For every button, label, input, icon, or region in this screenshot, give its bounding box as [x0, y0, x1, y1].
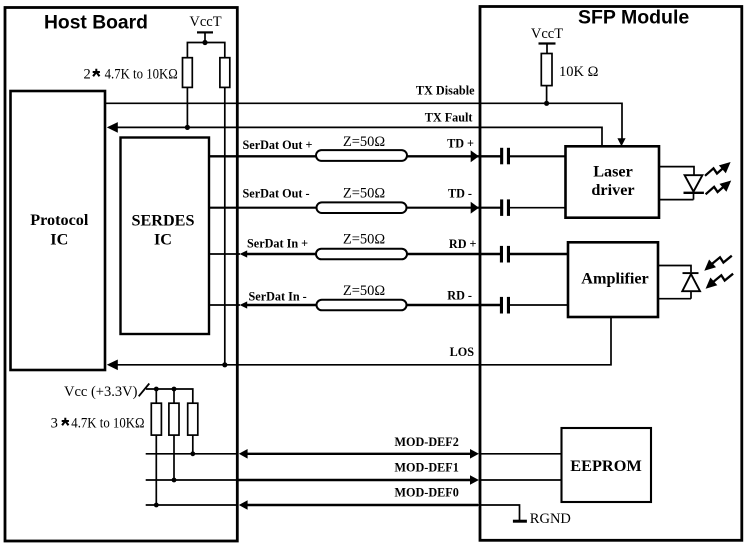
svg-text:Z=50Ω: Z=50Ω — [343, 185, 386, 201]
value label 2*4.7K to 10K — [84, 67, 178, 83]
svg-text:2: 2 — [84, 67, 91, 83]
wire RD- — [209, 289, 500, 309]
svg-text:TD -: TD - — [448, 187, 472, 201]
svg-text:EEPROM: EEPROM — [570, 456, 641, 475]
wire: R1 to TX Fault — [186, 87, 188, 127]
wire: R2 to LOS — [224, 87, 226, 364]
SERDES IC U2 — [121, 138, 210, 335]
svg-text:RD +: RD + — [449, 237, 477, 251]
resistor R4 — [151, 403, 161, 435]
photodiode D2 — [658, 266, 700, 299]
svg-text:3: 3 — [51, 416, 58, 432]
power VccT (SFP) — [531, 26, 563, 54]
wire TD- — [209, 186, 501, 213]
svg-text:SFP Module: SFP Module — [578, 7, 689, 29]
power Vcc 3.3V — [64, 384, 149, 401]
wire MOD-DEF1 — [146, 460, 562, 485]
transmission line Z=50 (RD-) — [317, 283, 407, 310]
svg-text:Host Board: Host Board — [44, 13, 148, 34]
svg-text:MOD-DEF1: MOD-DEF1 — [395, 460, 459, 474]
capacitor C4 (RD-) — [500, 297, 568, 314]
svg-text:SERDES: SERDES — [132, 212, 195, 230]
amplifier U4 — [568, 242, 658, 317]
svg-text:driver: driver — [591, 181, 634, 199]
svg-text:Z=50Ω: Z=50Ω — [343, 232, 386, 248]
wire: R4 to MOD-DEF0 — [155, 435, 157, 505]
laser driver U3 — [566, 146, 660, 217]
svg-text:LOS: LOS — [450, 345, 475, 359]
svg-text:TD +: TD + — [447, 137, 474, 151]
light input arrow 2 — [706, 274, 734, 289]
svg-text:4.7K to 10KΩ: 4.7K to 10KΩ — [105, 67, 178, 83]
svg-text:SerDat Out -: SerDat Out - — [243, 186, 310, 200]
node: R2-LOS junction — [222, 362, 227, 367]
svg-text:Laser: Laser — [593, 163, 633, 181]
ground RGND — [513, 511, 571, 527]
transmission line Z=50 (TD-) — [317, 185, 407, 213]
node: R5-MODDEF1 — [172, 478, 177, 483]
resistor R5 — [169, 403, 179, 435]
wire LOS — [107, 317, 611, 370]
svg-text:Amplifier: Amplifier — [581, 270, 648, 288]
svg-text:TX Fault: TX Fault — [425, 111, 473, 125]
light output arrow 1 — [705, 162, 731, 176]
value label 3*4.7K to 10K — [51, 416, 145, 432]
node: R4-MODDEF0 — [154, 503, 159, 508]
light output arrow 2 — [706, 181, 732, 195]
node: R1-TXFault junction — [185, 125, 190, 130]
node: VccT junction — [202, 40, 207, 45]
svg-text:MOD-DEF0: MOD-DEF0 — [395, 485, 459, 499]
node: rail-R5 — [172, 387, 177, 392]
wire TX Fault — [107, 111, 602, 147]
power VccT (host) — [189, 14, 221, 43]
node: 10K-TXDisable junction — [544, 101, 549, 106]
transmission line Z=50 (TD+) — [316, 134, 407, 161]
node: R6-MODDEF2 — [190, 451, 195, 456]
wire: R5 to MOD-DEF1 — [173, 435, 175, 480]
wire TD+ — [209, 137, 501, 163]
svg-text:SerDat In -: SerDat In - — [249, 289, 307, 303]
svg-text:VccT: VccT — [189, 14, 221, 30]
svg-text:Z=50Ω: Z=50Ω — [343, 134, 386, 150]
svg-text:RGND: RGND — [530, 511, 571, 527]
svg-text:SerDat Out +: SerDat Out + — [243, 138, 313, 152]
resistor R3 (10K SFP) — [541, 54, 598, 86]
wire: Vcc rail — [146, 389, 193, 403]
svg-text:Z=50Ω: Z=50Ω — [343, 283, 386, 299]
node: rail-R4 — [154, 387, 159, 392]
svg-text:RD -: RD - — [447, 289, 472, 303]
wire: 10K to TX Disable — [546, 86, 548, 104]
wire MOD-DEF2 — [146, 435, 562, 458]
protocol IC U1 — [11, 91, 106, 370]
svg-text:IC: IC — [50, 231, 68, 249]
resistor R2 (host pullup right) — [220, 58, 230, 88]
host board outline — [5, 8, 237, 542]
svg-text:SerDat In +: SerDat In + — [247, 237, 308, 251]
svg-text:VccT: VccT — [531, 26, 563, 42]
EEPROM U5 — [562, 428, 652, 502]
capacitor C1 (TD+) — [500, 148, 565, 165]
capacitor C2 (TD-) — [500, 199, 565, 216]
SFP module outline — [480, 7, 742, 541]
svg-text:10K Ω: 10K Ω — [559, 64, 599, 80]
transmission line Z=50 (RD+) — [316, 232, 407, 260]
svg-text:Vcc (+3.3V): Vcc (+3.3V) — [64, 384, 138, 400]
LED D1 (laser diode) — [659, 167, 704, 200]
resistor R1 (host pullup left) — [183, 58, 193, 88]
svg-text:TX Disable: TX Disable — [416, 84, 475, 98]
light input arrow 1 — [704, 256, 732, 271]
capacitor C3 (RD+) — [500, 246, 568, 263]
svg-text:4.7K to 10KΩ: 4.7K to 10KΩ — [71, 416, 144, 432]
wire MOD-DEF0 — [146, 485, 520, 521]
svg-text:IC: IC — [154, 231, 172, 249]
wire TX Disable — [105, 84, 626, 147]
svg-text:MOD-DEF2: MOD-DEF2 — [395, 435, 459, 449]
wire: R6 to MOD-DEF2 — [192, 435, 194, 454]
resistor R6 — [188, 403, 198, 435]
wire RD+ — [209, 237, 500, 258]
svg-text:Protocol: Protocol — [30, 211, 89, 229]
wire: host pullup rail — [187, 43, 224, 58]
